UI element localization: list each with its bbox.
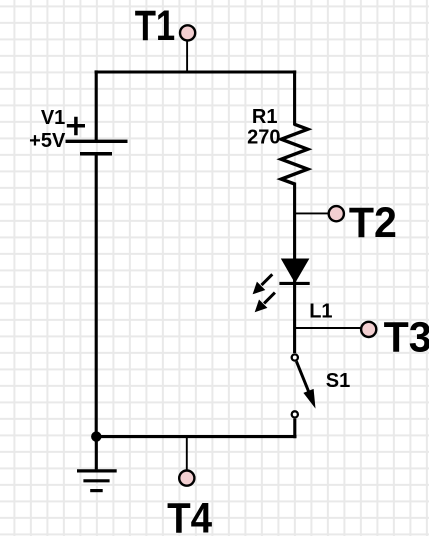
ground symbol <box>77 471 117 491</box>
battery V1 negative plate <box>80 152 112 156</box>
ground wire stub <box>95 437 98 470</box>
wire left vertical lower <box>95 154 98 438</box>
battery V1 positive plate <box>66 140 128 143</box>
terminal T2 circle <box>329 206 344 221</box>
wire bottom horizontal <box>95 435 297 438</box>
terminal T2 wire stub <box>295 212 329 214</box>
svg-text:T1: T1 <box>135 2 176 50</box>
svg-text:+5V: +5V <box>29 130 66 152</box>
terminal T3 circle <box>361 322 376 337</box>
terminal T4 wire stub <box>186 437 188 470</box>
junction node <box>91 431 101 441</box>
svg-text:270: 270 <box>247 126 280 148</box>
wire switch to bottom <box>293 419 296 439</box>
LED L1 cathode bar <box>279 282 309 285</box>
LED L1 triangle <box>281 259 310 284</box>
svg-text:R1: R1 <box>252 106 278 128</box>
svg-text:L1: L1 <box>309 301 332 323</box>
wire top horizontal <box>95 70 297 73</box>
wire right vertical upper <box>293 70 296 125</box>
switch S1 top contact <box>292 354 298 360</box>
wire LED to switch <box>293 284 296 353</box>
battery V1 plus sign <box>67 117 85 135</box>
svg-text:V1: V1 <box>41 107 65 129</box>
wire left vertical upper <box>95 70 98 140</box>
LED L1 light arrow 2 <box>255 293 275 313</box>
svg-text:S1: S1 <box>326 370 350 392</box>
switch S1 lever <box>296 361 315 408</box>
terminal T3 wire stub <box>295 327 362 329</box>
svg-text:T4: T4 <box>167 495 212 536</box>
svg-text:T3: T3 <box>384 314 429 362</box>
svg-text:T2: T2 <box>349 199 397 247</box>
resistor R1 zigzag <box>281 124 308 184</box>
wire resistor to LED <box>293 183 296 286</box>
terminal T1 wire stub <box>186 40 188 72</box>
terminal T1 circle <box>180 25 195 40</box>
LED L1 light arrow 1 <box>253 274 273 294</box>
switch S1 bottom contact <box>292 411 298 417</box>
terminal T4 circle <box>179 471 194 486</box>
